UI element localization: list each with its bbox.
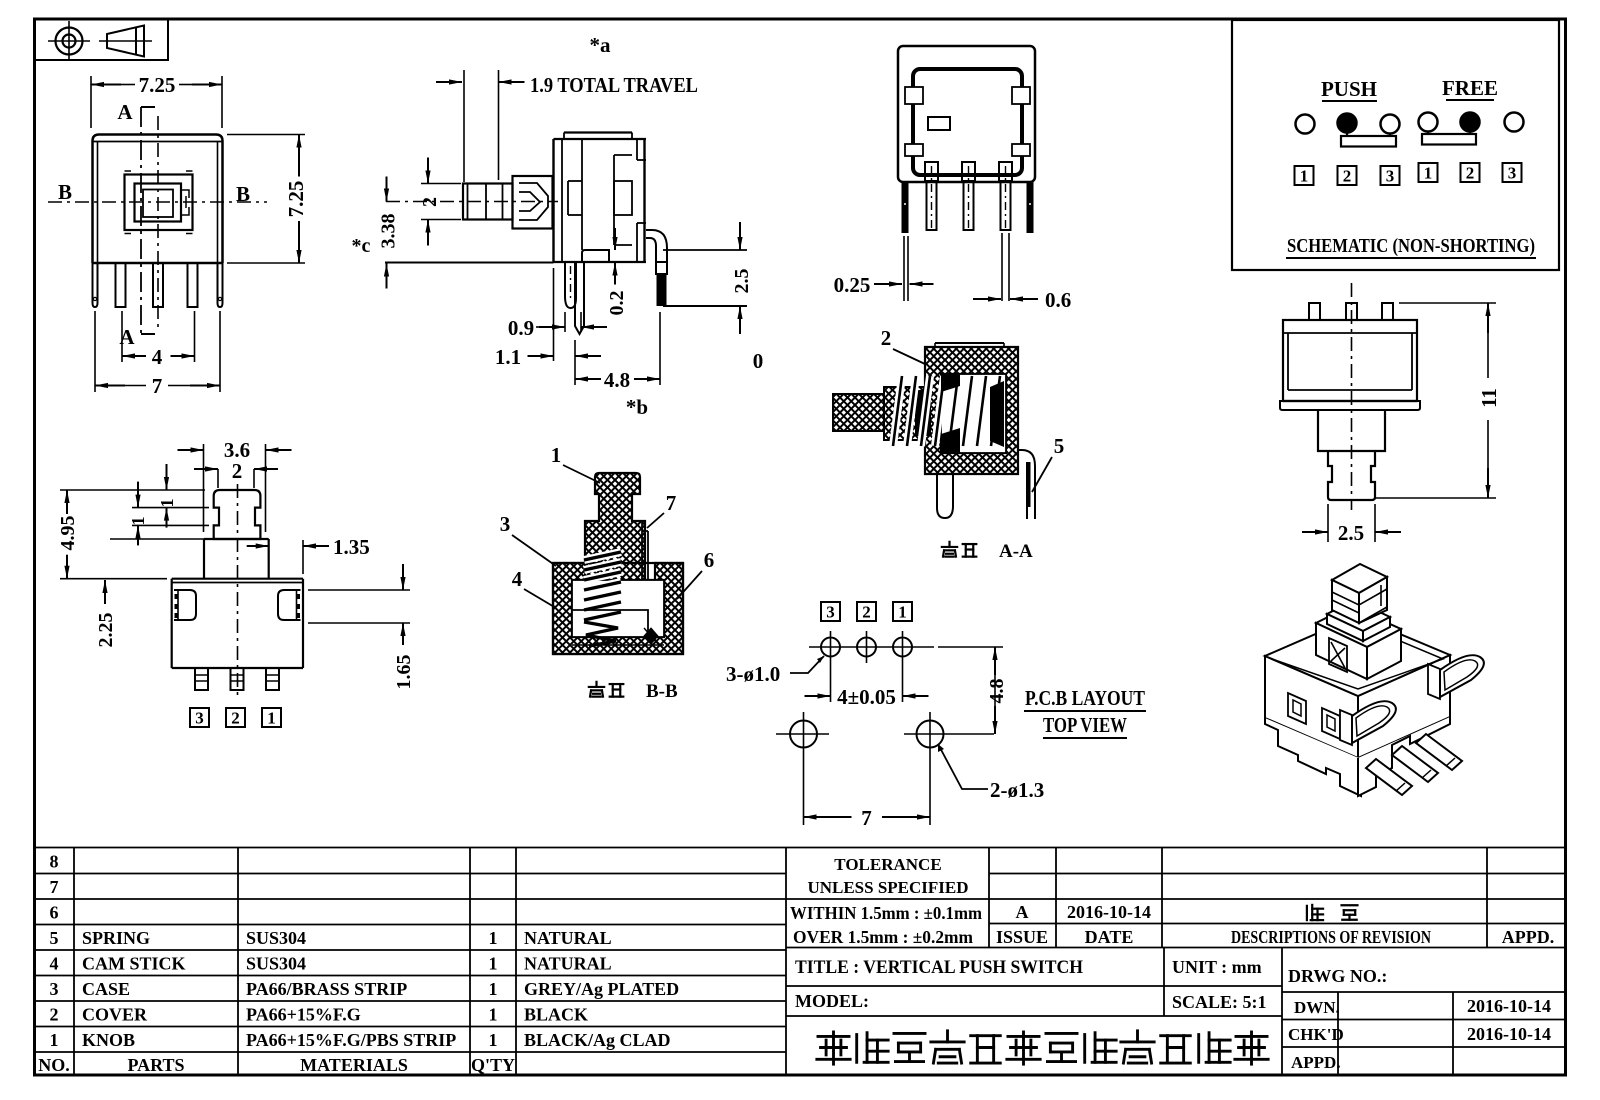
3d view wing pin right xyxy=(1428,664,1440,699)
svg-text:0: 0 xyxy=(753,349,764,373)
dim 0.6 xyxy=(973,298,1001,300)
svg-text:TOP VIEW: TOP VIEW xyxy=(1043,713,1127,737)
bottom view tabs xyxy=(1309,303,1320,320)
svg-text:B-B: B-B xyxy=(646,681,678,702)
svg-text:3: 3 xyxy=(500,512,511,536)
svg-text:3: 3 xyxy=(826,603,835,622)
dim 7 pcb xyxy=(803,756,805,825)
pcb pin numbers 3 2 1 xyxy=(821,602,840,621)
svg-text:DATE: DATE xyxy=(1085,927,1134,947)
3d view left face cutouts xyxy=(1288,693,1306,724)
svg-text:1: 1 xyxy=(128,517,148,526)
svg-text:2016-10-14: 2016-10-14 xyxy=(1467,996,1551,1016)
svg-text:BLACK/Ag CLAD: BLACK/Ag CLAD xyxy=(524,1030,671,1050)
dim 4.8 xyxy=(574,340,576,385)
svg-text:7.25: 7.25 xyxy=(284,181,308,218)
svg-text:APPD.: APPD. xyxy=(1502,927,1555,947)
section B-B knob part 1 (hatched) xyxy=(585,473,645,589)
pcb big holes 2-dia1.3 xyxy=(790,721,817,748)
svg-text:3: 3 xyxy=(195,709,204,728)
svg-text:7: 7 xyxy=(666,491,677,515)
dim 0.25 xyxy=(874,283,902,285)
svg-text:OVER 1.5mm : ±0.2mm: OVER 1.5mm : ±0.2mm xyxy=(793,927,973,947)
side view bent pin xyxy=(646,238,656,262)
svg-text:NO.: NO. xyxy=(38,1055,70,1075)
svg-text:SUS304: SUS304 xyxy=(246,954,306,974)
free contacts xyxy=(1419,113,1438,132)
3d view knob collar xyxy=(1327,600,1390,631)
svg-text:4.95: 4.95 xyxy=(57,516,79,551)
svg-text:1.65: 1.65 xyxy=(393,655,415,690)
dim 1.9 total travel xyxy=(436,81,462,83)
top view neck xyxy=(203,539,205,579)
dim 11 xyxy=(1399,302,1496,304)
svg-text:P.C.B LAYOUT: P.C.B LAYOUT xyxy=(1025,686,1145,710)
section B-B contact detail xyxy=(644,628,658,644)
svg-text:UNIT : mm: UNIT : mm xyxy=(1172,957,1262,977)
bottom view neck xyxy=(1318,410,1385,451)
svg-text:SCHEMATIC (NON-SHORTING): SCHEMATIC (NON-SHORTING) xyxy=(1287,235,1535,257)
3d view body top face xyxy=(1265,616,1450,696)
svg-text:1: 1 xyxy=(50,1030,59,1050)
svg-text:FREE: FREE xyxy=(1442,76,1498,100)
section B-B case (hatched walls) xyxy=(553,563,683,654)
dim 4 xyxy=(121,311,123,362)
svg-text:7: 7 xyxy=(152,374,163,398)
svg-text:1: 1 xyxy=(898,603,907,622)
free pin numbers xyxy=(1419,163,1438,182)
section B-B spring xyxy=(584,552,621,620)
svg-text:PA66+15%F.G: PA66+15%F.G xyxy=(246,1005,361,1025)
svg-text:1: 1 xyxy=(489,979,498,999)
3d view body right face xyxy=(1358,655,1450,758)
dim 1.65 xyxy=(308,589,410,591)
dims 1,1 xyxy=(132,507,209,509)
svg-text:PARTS: PARTS xyxy=(127,1055,184,1075)
svg-text:2: 2 xyxy=(50,1005,59,1025)
3d view pin 2 xyxy=(1392,746,1438,782)
svg-text:1: 1 xyxy=(489,1030,498,1050)
top view pins xyxy=(195,668,208,690)
caption section B-B xyxy=(589,682,604,697)
svg-text:7.25: 7.25 xyxy=(139,73,176,97)
svg-text:4: 4 xyxy=(152,345,163,369)
svg-text:SUS304: SUS304 xyxy=(246,928,306,948)
svg-text:0.9: 0.9 xyxy=(508,316,534,340)
back view hole xyxy=(928,117,950,130)
svg-text:1: 1 xyxy=(489,1005,498,1025)
side view plunger shaft xyxy=(463,184,513,220)
centerlines front view xyxy=(157,116,159,330)
svg-text:2: 2 xyxy=(232,459,243,483)
section B-B part 7 xyxy=(641,523,643,589)
svg-text:3: 3 xyxy=(1508,164,1517,183)
company name CJK xyxy=(817,1032,850,1064)
svg-text:1.9 TOTAL TRAVEL: 1.9 TOTAL TRAVEL xyxy=(530,73,698,97)
top view centerline xyxy=(237,484,239,700)
svg-text:UNLESS SPECIFIED: UNLESS SPECIFIED xyxy=(807,878,968,897)
svg-text:7: 7 xyxy=(861,806,872,830)
push contacts xyxy=(1296,115,1315,134)
svg-text:2.25: 2.25 xyxy=(95,613,117,648)
svg-text:APPD.: APPD. xyxy=(1291,1053,1341,1072)
dim 1.1 xyxy=(553,268,555,361)
svg-text:TOLERANCE: TOLERANCE xyxy=(834,855,941,874)
3d view bottom flange left xyxy=(1265,718,1361,796)
back view side notches xyxy=(905,87,923,104)
svg-text:MATERIALS: MATERIALS xyxy=(300,1055,408,1075)
dim 0.2 xyxy=(614,228,616,244)
svg-text:TITLE : VERTICAL PUSH SWITCH: TITLE : VERTICAL PUSH SWITCH xyxy=(795,957,1083,978)
3d view body left face xyxy=(1265,656,1358,758)
svg-text:1: 1 xyxy=(551,443,562,467)
back view body xyxy=(898,46,1035,182)
svg-text:DESCRIPTIONS OF REVISION: DESCRIPTIONS OF REVISION xyxy=(1231,927,1431,947)
svg-text:6: 6 xyxy=(50,903,59,923)
svg-text:4±0.05: 4±0.05 xyxy=(837,685,896,709)
section A-A spring horizontal xyxy=(893,376,1000,446)
section B-B inner cavity xyxy=(572,580,664,637)
dim 2 left xyxy=(421,183,461,185)
svg-text:1.1: 1.1 xyxy=(495,345,521,369)
svg-text:2.5: 2.5 xyxy=(731,269,753,294)
3d view bottom flange right xyxy=(1358,717,1450,796)
section A-A cavity xyxy=(941,374,1006,453)
svg-text:B: B xyxy=(58,180,72,204)
dim 2.5 right xyxy=(663,305,747,307)
svg-text:4: 4 xyxy=(50,954,59,974)
svg-text:DWN.: DWN. xyxy=(1294,998,1340,1017)
svg-text:2.5: 2.5 xyxy=(1338,521,1364,545)
svg-text:BLACK: BLACK xyxy=(524,1005,588,1025)
first-angle projection symbol xyxy=(35,19,169,60)
dim 4+-0.05 xyxy=(830,663,832,702)
section A-A case part (hatched) xyxy=(925,347,1018,474)
dim 7 bottom xyxy=(94,311,96,392)
svg-text:5: 5 xyxy=(1054,434,1065,458)
section B-B cam stick xyxy=(572,610,648,637)
svg-text:2: 2 xyxy=(862,603,871,622)
section A-A plunger (hatched) xyxy=(833,394,884,431)
section A-A spring core xyxy=(915,390,931,436)
caption section A-A xyxy=(942,542,957,557)
dim 4.95 xyxy=(60,489,205,491)
svg-text:ISSUE: ISSUE xyxy=(996,927,1048,947)
svg-text:2: 2 xyxy=(231,709,240,728)
svg-text:A: A xyxy=(1016,902,1029,922)
revision CJK 初版 xyxy=(1307,905,1323,920)
svg-text:3: 3 xyxy=(50,979,59,999)
svg-text:PA66/BRASS STRIP: PA66/BRASS STRIP xyxy=(246,979,407,999)
svg-text:NATURAL: NATURAL xyxy=(524,928,612,948)
svg-text:2: 2 xyxy=(419,197,441,207)
3d view wing pin left xyxy=(1340,710,1352,745)
svg-text:6: 6 xyxy=(704,548,715,572)
3d view knob cap xyxy=(1332,564,1387,593)
side view inner details xyxy=(581,139,583,250)
svg-text:3-ø1.0: 3-ø1.0 xyxy=(726,662,780,686)
svg-text:5: 5 xyxy=(50,928,59,948)
svg-text:MODEL:: MODEL: xyxy=(795,991,869,1011)
svg-text:CAM STICK: CAM STICK xyxy=(82,954,186,974)
front view button xyxy=(125,175,193,231)
svg-text:8: 8 xyxy=(50,852,59,872)
svg-text:4: 4 xyxy=(512,567,523,591)
svg-text:2-ø1.3: 2-ø1.3 xyxy=(990,778,1044,802)
svg-text:2: 2 xyxy=(881,326,892,350)
svg-text:3.38: 3.38 xyxy=(378,214,400,249)
front view pins xyxy=(93,263,98,307)
dim 7.25 top xyxy=(90,76,92,128)
dim 3.6 xyxy=(203,444,205,532)
section line A-A xyxy=(140,107,142,334)
svg-text:2016-10-14: 2016-10-14 xyxy=(1467,1024,1551,1044)
svg-text:1: 1 xyxy=(489,954,498,974)
svg-text:1: 1 xyxy=(1300,167,1309,186)
dim 3.38 xyxy=(386,177,388,202)
svg-text:SCALE: 5:1: SCALE: 5:1 xyxy=(1172,992,1267,1012)
bottom view body xyxy=(1283,320,1417,401)
dim 4.8 pcb xyxy=(938,646,1003,648)
svg-text:PA66+15%F.G/PBS STRIP: PA66+15%F.G/PBS STRIP xyxy=(246,1030,456,1050)
svg-text:2: 2 xyxy=(1466,164,1475,183)
svg-text:CHK'D: CHK'D xyxy=(1288,1025,1344,1044)
svg-text:0.25: 0.25 xyxy=(834,273,871,297)
svg-text:*b: *b xyxy=(626,395,648,419)
svg-text:2016-10-14: 2016-10-14 xyxy=(1067,902,1151,922)
svg-text:4.8: 4.8 xyxy=(986,679,1008,704)
svg-text:1: 1 xyxy=(1424,164,1433,183)
svg-text:Q'TY: Q'TY xyxy=(471,1055,515,1075)
dim 7.25 right xyxy=(227,134,305,136)
dim 2.5 bottom xyxy=(1327,504,1329,542)
side view middle pin xyxy=(575,263,584,335)
svg-text:3: 3 xyxy=(1386,167,1395,186)
3d view pin 3 xyxy=(1366,759,1412,795)
3d view pin 1 xyxy=(1416,734,1462,770)
contact bracket xyxy=(582,250,609,262)
svg-text:SPRING: SPRING xyxy=(82,928,150,948)
title block table xyxy=(35,848,1566,1076)
front view body xyxy=(93,135,223,264)
svg-text:1: 1 xyxy=(157,499,177,508)
pcb small holes 3-dia1.0 xyxy=(809,646,934,648)
side view hook pin xyxy=(565,263,576,309)
3d view knob boss xyxy=(1316,606,1401,647)
svg-text:NATURAL: NATURAL xyxy=(524,954,612,974)
svg-text:0.2: 0.2 xyxy=(606,291,628,316)
bottom view centerline xyxy=(1351,283,1353,510)
side view body xyxy=(552,139,554,262)
svg-text:A-A: A-A xyxy=(999,541,1033,562)
top view knob xyxy=(214,490,261,539)
svg-text:1: 1 xyxy=(267,709,276,728)
side view cam housing xyxy=(513,176,553,229)
svg-text:2: 2 xyxy=(1343,167,1352,186)
svg-text:KNOB: KNOB xyxy=(82,1030,135,1050)
svg-text:CASE: CASE xyxy=(82,979,130,999)
top view pin numbers 3 2 1 xyxy=(190,708,209,727)
svg-text:DRWG NO.:: DRWG NO.: xyxy=(1288,966,1387,986)
svg-text:1.35: 1.35 xyxy=(333,535,370,559)
svg-text:1: 1 xyxy=(489,928,498,948)
svg-text:WITHIN 1.5mm : ±0.1mm: WITHIN 1.5mm : ±0.1mm xyxy=(790,903,982,923)
section A-A bent pin 5 xyxy=(1018,450,1035,519)
svg-text:COVER: COVER xyxy=(82,1005,148,1025)
schematic box xyxy=(1232,20,1559,270)
dim 1.35 xyxy=(268,540,270,560)
top view body xyxy=(172,578,303,580)
push pin numbers xyxy=(1295,166,1314,185)
svg-text:B: B xyxy=(236,182,250,206)
svg-text:7: 7 xyxy=(50,877,59,897)
top view side tabs xyxy=(174,590,196,620)
svg-text:GREY/Ag PLATED: GREY/Ag PLATED xyxy=(524,979,679,999)
svg-text:*a: *a xyxy=(590,33,612,57)
svg-text:PUSH: PUSH xyxy=(1321,77,1377,101)
bottom view knob stem xyxy=(1328,451,1375,500)
dim 0.9 xyxy=(564,312,566,332)
3d view knob boss slot xyxy=(1329,638,1347,672)
svg-text:0.6: 0.6 xyxy=(1045,288,1071,312)
back view outer legs xyxy=(902,182,909,233)
svg-text:A: A xyxy=(117,100,133,124)
dim 2.25 xyxy=(104,580,106,604)
svg-text:11: 11 xyxy=(1477,388,1501,408)
pcb plane lines xyxy=(385,262,554,264)
section A-A pin below xyxy=(937,474,953,518)
dim 2 top xyxy=(217,469,219,488)
section A-A contacts xyxy=(990,381,1004,447)
svg-text:4.8: 4.8 xyxy=(604,368,630,392)
svg-text:*c: *c xyxy=(352,235,371,257)
back view pins xyxy=(925,162,938,181)
